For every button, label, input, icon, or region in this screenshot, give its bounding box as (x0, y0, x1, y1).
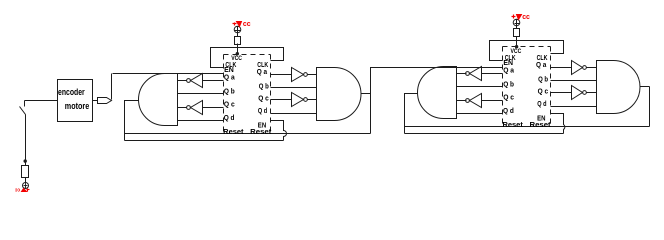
svg-text:Q a: Q a (224, 72, 236, 81)
svg-text:encoder: encoder (58, 87, 85, 98)
svg-text:Q d: Q d (503, 106, 514, 115)
svg-text:Q c: Q c (224, 99, 235, 108)
svg-text:cc: cc (522, 12, 530, 21)
svg-text:Q a: Q a (536, 60, 547, 69)
svg-text:Q b: Q b (224, 86, 235, 95)
svg-text:Q c: Q c (503, 92, 514, 101)
svg-text:cc: cc (243, 19, 251, 28)
svg-text:Q b: Q b (538, 75, 549, 84)
svg-text:Reset: Reset (250, 127, 272, 136)
svg-text:Q b: Q b (503, 79, 514, 88)
svg-text:Q a: Q a (503, 65, 515, 74)
svg-text:Q a: Q a (257, 67, 268, 76)
svg-text:Reset: Reset (223, 127, 244, 136)
svg-text:Q d: Q d (258, 106, 267, 115)
svg-text:Reset: Reset (503, 120, 524, 129)
svg-text:Q c: Q c (258, 94, 269, 103)
svg-text:Reset: Reset (530, 120, 552, 129)
svg-text:Q c: Q c (538, 87, 549, 96)
svg-text:cc: cc (15, 186, 20, 192)
svg-text:motore: motore (65, 101, 89, 112)
svg-text:Q d: Q d (537, 99, 546, 108)
svg-text:Q b: Q b (259, 82, 270, 91)
svg-text:Q d: Q d (224, 113, 235, 122)
